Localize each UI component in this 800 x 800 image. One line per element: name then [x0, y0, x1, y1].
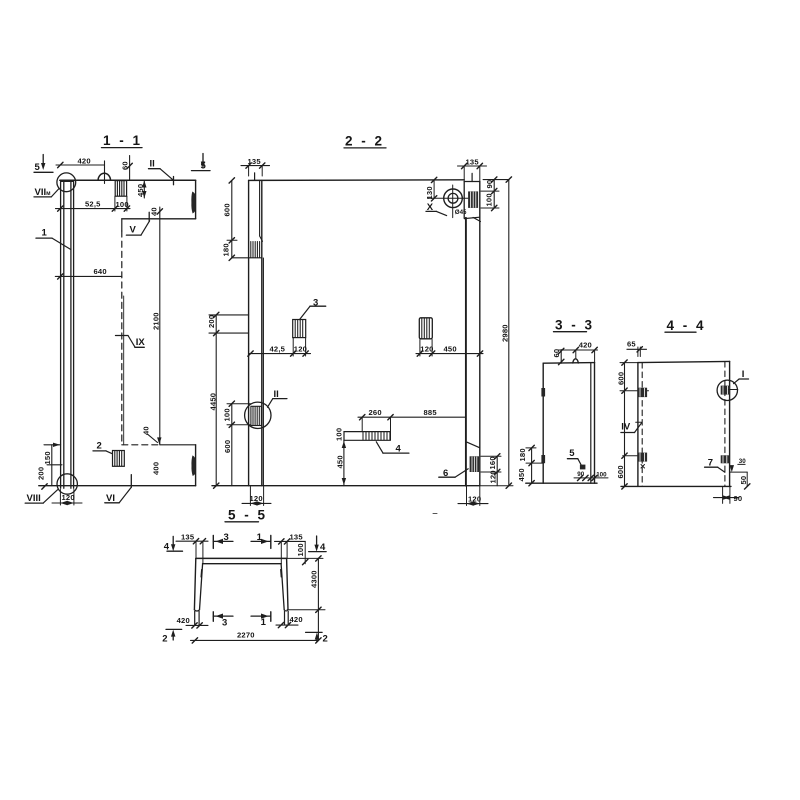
dim 420 bottom right 5-5 — [276, 615, 303, 628]
dim 260 / 885 — [358, 408, 466, 440]
right column outlines — [464, 182, 480, 486]
svg-text:3: 3 — [224, 532, 229, 543]
label II — [149, 159, 174, 185]
bottom flange bottom line — [39, 484, 196, 489]
outer chain 200/4450 — [207, 312, 248, 488]
svg-text:1 - 1: 1 - 1 — [103, 133, 143, 148]
label 7 — [705, 457, 725, 472]
svg-text:450: 450 — [444, 344, 457, 353]
web companion thin line — [123, 296, 125, 445]
left chain 600/600 of 4-4 — [616, 360, 649, 489]
dim 120 / 450 mid — [416, 340, 483, 357]
column hatch top — [232, 242, 262, 258]
detail circle I — [717, 380, 737, 400]
dim 420 top — [56, 157, 105, 184]
anchor square lower left — [638, 453, 647, 462]
right leg outer — [287, 558, 288, 609]
svg-text:2 - 2: 2 - 2 — [345, 134, 385, 149]
inner corner tick left — [200, 570, 203, 578]
bolt center lines — [428, 185, 471, 218]
svg-text:60: 60 — [120, 161, 129, 170]
detail circle II — [245, 402, 271, 428]
hatched rebar section 2 — [113, 451, 125, 467]
label V — [126, 221, 149, 236]
cut mark 4 right — [309, 536, 326, 553]
label VIII — [25, 490, 57, 504]
svg-text:4300: 4300 — [309, 570, 318, 588]
svg-text:IX: IX — [136, 337, 146, 348]
right leg inner — [281, 564, 284, 610]
svg-text:450: 450 — [136, 184, 145, 197]
dim 135 left column — [241, 157, 270, 176]
section 1-1 title — [102, 133, 143, 148]
dim 135 top right 5-5 — [275, 533, 306, 564]
svg-text:2: 2 — [162, 634, 167, 645]
svg-text:100: 100 — [223, 408, 232, 421]
arrow at bar 150 — [53, 443, 60, 447]
svg-text:90: 90 — [485, 180, 494, 189]
left column outlines — [249, 180, 264, 485]
svg-text:52,5: 52,5 — [85, 200, 101, 209]
dim 135 top left 5-5 — [176, 532, 208, 563]
svg-text:II: II — [150, 159, 155, 170]
svg-text:420: 420 — [177, 616, 190, 625]
svg-text:2980: 2980 — [500, 324, 509, 342]
bar 4 outline — [344, 432, 390, 441]
svg-text:V: V — [130, 225, 137, 236]
inner corner tick right — [280, 570, 283, 578]
weld tab lower left — [541, 455, 545, 463]
svg-text:120: 120 — [294, 345, 307, 354]
svg-text:IV: IV — [621, 422, 631, 433]
svg-text:1: 1 — [42, 228, 48, 239]
channel top outer line — [196, 557, 287, 559]
label 6 — [439, 468, 468, 479]
lifting hook 3-3 — [573, 359, 579, 363]
column center tick — [254, 173, 256, 181]
weld mark 1 top — [251, 532, 271, 548]
weld tab upper left — [541, 388, 545, 397]
dim 30 right — [738, 458, 746, 465]
label VII-m — [34, 187, 59, 198]
label 2 — [93, 441, 113, 454]
left chain 180/450 of 3-3 — [517, 445, 543, 486]
weld mark 3 top — [213, 532, 233, 548]
svg-text:42,5: 42,5 — [270, 345, 286, 354]
svg-text:100: 100 — [296, 543, 305, 556]
section 2-2 title — [344, 134, 386, 149]
bar 1 (long rebar, double pair) — [61, 182, 74, 489]
dim 450 vertical arrow — [336, 440, 346, 485]
dashed line left 4-4 — [641, 363, 643, 487]
anchor square upper left — [638, 388, 647, 397]
svg-text:885: 885 — [424, 408, 438, 417]
small marks below square — [641, 465, 645, 469]
dim 130 rotated — [425, 180, 437, 201]
svg-text:400: 400 — [151, 462, 160, 475]
dim 120 left column foot — [242, 487, 271, 506]
dim 450 rotated — [136, 181, 147, 199]
hatched rebar mid-right — [419, 318, 432, 339]
tick 40 at flange — [149, 207, 158, 221]
label IX — [116, 336, 146, 349]
svg-text:200: 200 — [207, 315, 216, 328]
svg-text:5 - 5: 5 - 5 — [228, 508, 268, 523]
wedge diagonal — [467, 442, 479, 447]
left leg outer — [194, 558, 195, 609]
label VI — [105, 475, 132, 504]
dim 65 top 4-4 — [627, 339, 647, 356]
dim 90 bottom 4-4 — [714, 487, 743, 504]
weld seam right bottom — [191, 455, 195, 476]
svg-text:2: 2 — [97, 441, 102, 452]
svg-text:450: 450 — [336, 455, 345, 468]
svg-text:4 - 4: 4 - 4 — [667, 318, 707, 333]
dim 420 bottom left 5-5 — [177, 616, 208, 628]
svg-text:90: 90 — [577, 471, 584, 478]
svg-text:2270: 2270 — [237, 630, 255, 639]
cut mark 4 left — [164, 536, 183, 552]
section 4-4 title — [665, 318, 706, 333]
dim 100 bottom right 3-3 — [588, 471, 608, 480]
chain 160/120 bottom right — [481, 454, 501, 486]
svg-text:180: 180 — [222, 243, 231, 256]
label 3 — [300, 297, 326, 319]
svg-text:5: 5 — [569, 448, 575, 459]
svg-text:2: 2 — [323, 634, 328, 645]
outer chain 2980 — [481, 177, 514, 489]
dim 120 right column foot — [458, 487, 488, 506]
weld seam right top — [191, 192, 195, 214]
right leg cap — [284, 610, 288, 611]
svg-text:450: 450 — [517, 468, 526, 481]
bar 4 hatch — [363, 432, 387, 440]
svg-text:120: 120 — [488, 470, 497, 483]
svg-text:420: 420 — [78, 157, 91, 166]
bottom chord line — [212, 485, 480, 487]
dim 42,5 / 120 — [248, 338, 311, 356]
dim 120 bar end — [52, 490, 82, 506]
svg-text:120: 120 — [420, 344, 433, 353]
svg-text:60: 60 — [552, 349, 561, 358]
plate hatch dark — [468, 191, 478, 208]
dim 60 rotated 3-3 — [552, 348, 564, 364]
right chain 90/100 — [481, 177, 509, 211]
svg-text:120: 120 — [468, 494, 481, 503]
web hidden dashed line — [121, 219, 123, 445]
flange right edge — [195, 180, 197, 219]
dashed line right 4-4 — [724, 362, 726, 487]
box 3-3 outline — [526, 363, 597, 484]
anchor square right — [721, 455, 730, 463]
label I — [734, 369, 749, 384]
svg-text:50: 50 — [739, 476, 748, 485]
section 5-5 title — [225, 508, 268, 523]
channel top inner line — [203, 563, 282, 565]
dim 100 right aux — [296, 541, 308, 564]
svg-text:135: 135 — [181, 532, 195, 541]
label 1 — [36, 228, 71, 250]
svg-text:Ø45: Ø45 — [455, 209, 467, 216]
svg-text:100: 100 — [116, 200, 129, 209]
svg-text:90: 90 — [734, 494, 743, 503]
rebar block 3-3 — [580, 465, 586, 470]
label IV — [621, 422, 642, 433]
svg-text:1: 1 — [261, 617, 267, 628]
cut mark 5 right — [192, 154, 211, 172]
svg-text:100: 100 — [485, 193, 494, 206]
hatched rebar 3 — [293, 320, 306, 338]
stray mark — [433, 513, 437, 515]
svg-text:640: 640 — [94, 267, 107, 276]
svg-text:160: 160 — [488, 456, 497, 469]
svg-text:VIII: VIII — [27, 493, 41, 504]
svg-text:600: 600 — [616, 372, 625, 385]
svg-text:4450: 4450 — [209, 393, 218, 411]
bottom flange right edge — [195, 445, 197, 486]
label II — [268, 389, 287, 407]
weld mark 3 bottom — [213, 612, 233, 629]
lifting loop arc — [98, 173, 110, 180]
label 5 — [567, 448, 581, 465]
inner chain 100/600 — [223, 401, 251, 486]
svg-text:30: 30 — [739, 458, 746, 465]
flange bottom line — [122, 218, 196, 220]
left chain ticks 150/200 — [44, 445, 62, 486]
detail circle VII — [57, 173, 76, 192]
svg-text:65: 65 — [627, 339, 636, 348]
svg-text:120: 120 — [250, 494, 263, 503]
svg-text:420: 420 — [290, 615, 303, 624]
dim 100 — [112, 196, 130, 211]
dark rebar block bottom right — [470, 456, 479, 472]
svg-text:200: 200 — [36, 467, 45, 480]
svg-text:135: 135 — [290, 533, 304, 542]
right tip strip — [285, 611, 289, 624]
dim 420 top 3-3 — [558, 340, 598, 362]
label X — [426, 202, 447, 216]
svg-text:420: 420 — [579, 340, 592, 349]
cut mark 5 left — [34, 155, 53, 174]
svg-text:600: 600 — [222, 203, 231, 216]
cut mark 2 right — [306, 632, 328, 644]
dim 90 bottom 3-3 — [574, 471, 589, 480]
svg-text:100: 100 — [335, 428, 344, 441]
detail circle VIII — [57, 474, 77, 494]
left leg inner — [200, 564, 203, 610]
top flange top line — [60, 179, 196, 181]
svg-text:2100: 2100 — [151, 312, 160, 330]
label 4 — [376, 442, 409, 455]
svg-text:600: 600 — [223, 440, 232, 453]
box 4-4 outline — [621, 361, 731, 486]
svg-text:130: 130 — [425, 186, 434, 199]
weld mark 1 bottom — [251, 612, 271, 628]
bottom flange hidden top edge — [122, 444, 196, 446]
right chain 4300 — [287, 556, 325, 643]
section 3-3 title — [554, 318, 595, 333]
svg-text:40: 40 — [142, 426, 151, 435]
svg-text:120: 120 — [62, 493, 75, 502]
hatched rebar section top (pos.100 dim) — [115, 181, 126, 197]
anchor square in circle I — [721, 386, 730, 395]
dim 52,5 — [56, 200, 115, 212]
svg-text:150: 150 — [43, 451, 52, 464]
svg-text:180: 180 — [518, 448, 527, 461]
dim 135 right column — [458, 157, 487, 181]
svg-text:600: 600 — [616, 465, 625, 478]
svg-text:100: 100 — [596, 471, 607, 478]
center line through circle I — [728, 389, 737, 391]
dim 640 — [55, 267, 122, 279]
cut mark 2 left — [162, 629, 182, 644]
svg-text:3: 3 — [222, 617, 227, 628]
corner arrow 40 — [142, 426, 162, 444]
svg-text:5: 5 — [35, 162, 41, 173]
svg-text:135: 135 — [466, 157, 480, 166]
left chain 600/180 — [222, 178, 238, 261]
dim 2270 bottom — [191, 630, 319, 643]
left tip strip — [195, 611, 199, 624]
top chord line — [249, 177, 465, 182]
column hatch in circle II — [251, 406, 262, 425]
svg-text:260: 260 — [369, 408, 382, 417]
svg-text:1: 1 — [257, 532, 263, 543]
dim 50 right — [730, 465, 750, 489]
dim line 2100 — [151, 207, 162, 445]
svg-text:3 - 3: 3 - 3 — [555, 318, 595, 333]
bolt washer circles — [444, 189, 463, 208]
dim 60 rotated — [120, 156, 132, 181]
left leg cap — [194, 610, 199, 611]
